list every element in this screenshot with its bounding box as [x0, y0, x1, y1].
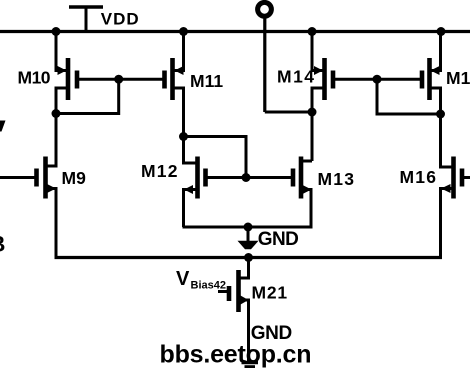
svg-text:M11: M11	[190, 71, 223, 91]
node dot M10 drain / M9 drain	[52, 109, 61, 118]
wire M16 source to tail bus	[441, 189, 454, 258]
node dot rail-M10	[52, 27, 61, 36]
node dot gnd stub	[244, 223, 253, 232]
transistor M12	[184, 157, 206, 199]
output terminal circle	[258, 2, 272, 16]
VBias42 label	[176, 268, 226, 292]
svg-text:M9: M9	[62, 168, 87, 188]
wire gate-to-drain link of M10	[56, 79, 119, 113]
wire M12/M13 ground bus	[183, 226, 313, 229]
wire tail bus	[55, 256, 443, 259]
node dot M11 drain	[179, 132, 188, 141]
M21 label	[252, 282, 288, 302]
transistor M10	[58, 58, 78, 100]
svg-text:GND: GND	[258, 229, 298, 250]
wire M16 gate lead	[462, 176, 470, 179]
wire M11 source from rail	[173, 32, 184, 71]
transistor M21	[229, 270, 249, 312]
transistor M13	[293, 157, 312, 199]
node dot rail-M15	[437, 27, 446, 36]
wire gate-to-drain link of M15	[377, 79, 441, 114]
wire M11 drain to M12 drain	[173, 88, 198, 163]
wire M10/M11 gate bus	[77, 78, 165, 81]
node dot gate bus	[114, 75, 123, 84]
VDD rail	[0, 30, 470, 33]
wire M10 drain	[46, 88, 69, 166]
wire M13 drain jog	[301, 160, 312, 163]
M13 label	[318, 169, 356, 189]
M10 label	[18, 68, 51, 88]
wire M21 drain	[239, 258, 249, 279]
wire M15 source from rail	[430, 32, 441, 71]
text fragment B at left edge	[0, 232, 5, 257]
ground symbol upper	[238, 241, 259, 249]
node dot M14/M15 gate	[373, 75, 382, 84]
transistor M14	[314, 58, 333, 100]
M9 label	[62, 168, 87, 188]
svg-text:M12: M12	[141, 161, 179, 181]
svg-text:V: V	[176, 268, 190, 290]
M15 label (clipped)	[446, 68, 470, 88]
transistor M16	[441, 157, 462, 199]
node dot M15 drain	[436, 110, 445, 119]
M12 label	[141, 161, 179, 181]
svg-text:bbs.eetop.cn: bbs.eetop.cn	[160, 341, 312, 368]
node dot tail bus / M21 drain	[244, 253, 253, 262]
transistor M15	[422, 58, 440, 100]
wire M15 drain to M16 drain	[430, 88, 454, 167]
wire M12 source to gnd bus	[184, 190, 198, 228]
GND label upper	[258, 229, 298, 250]
GND label lower	[251, 323, 292, 344]
wire GND stub	[247, 227, 250, 242]
svg-text:M13: M13	[318, 169, 356, 189]
node dot rail-M14	[308, 27, 317, 36]
svg-text:M15: M15	[446, 68, 470, 88]
M11 label	[190, 71, 223, 91]
transistor M11	[165, 58, 184, 100]
svg-text:M21: M21	[252, 282, 288, 302]
wire M21 gate lead	[218, 290, 229, 293]
wire M9 gate lead	[0, 176, 37, 179]
wire M14/M15 gate bus	[333, 78, 422, 81]
svg-text:Bias42: Bias42	[191, 280, 226, 292]
M16 label	[400, 167, 438, 187]
node dot output/M14 drain	[308, 108, 317, 117]
wire output stem	[263, 17, 266, 113]
wire M14 drain to M13 drain	[312, 88, 325, 161]
VDD label	[101, 9, 140, 28]
ground symbol lower	[242, 363, 259, 368]
VDD symbol	[69, 7, 103, 32]
wire M21 source to ground	[239, 300, 249, 361]
svg-text:M10: M10	[18, 68, 51, 88]
wire M10 source from rail	[56, 32, 68, 71]
svg-text:VDD: VDD	[101, 9, 140, 28]
node dot M12/M13 gate	[242, 173, 251, 182]
wire M14 source from rail	[312, 32, 325, 71]
wire M13 source to gnd bus	[301, 190, 311, 228]
wire output to drain node	[265, 111, 312, 114]
svg-text:B: B	[0, 232, 5, 257]
wire M9 source to tail bus	[46, 189, 57, 258]
svg-text:M14: M14	[277, 66, 316, 86]
wire M11 drain to M12/M13 gates	[184, 137, 247, 178]
transistor M9	[37, 157, 57, 199]
text fragment 7 at left edge	[0, 121, 6, 132]
svg-text:M16: M16	[400, 167, 438, 187]
node dot rail-M11	[179, 27, 188, 36]
watermark bbs.eetop.cn	[160, 341, 312, 368]
wire M12/M13 gate bus	[206, 176, 294, 179]
M14 label	[277, 66, 316, 86]
